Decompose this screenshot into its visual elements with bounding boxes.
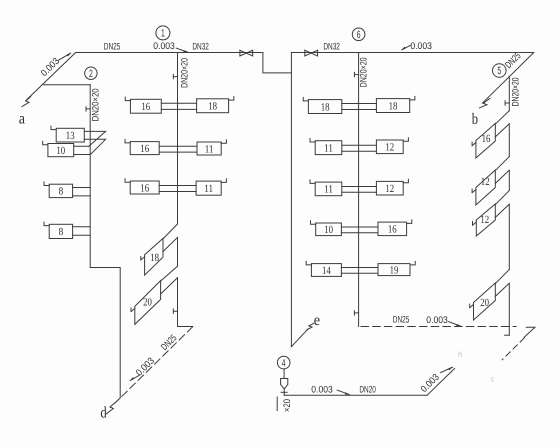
wire connectors radiator 8 upper	[73, 188, 91, 196]
radiator 20 axonometric b-column #4	[474, 283, 496, 320]
hook g2-row5 left box	[306, 261, 311, 265]
hook g2-row2 left box	[310, 139, 315, 143]
wire supply diagonal from node a	[26, 53, 76, 101]
radiator box 11 row2 right	[197, 142, 221, 155]
wire g2-row1 connectors	[342, 104, 377, 110]
svg-text:20: 20	[143, 297, 152, 309]
tick on b radiator #3	[473, 222, 477, 226]
slope arrow on a-diagonal	[58, 53, 70, 60]
hook row3 right box	[221, 179, 226, 183]
wire jog to b radiator 16 #1	[495, 111, 509, 125]
wire branch to left riser	[44, 84, 91, 86]
svg-text:18: 18	[389, 100, 398, 112]
svg-text:12: 12	[385, 142, 394, 154]
svg-text:12: 12	[385, 183, 394, 195]
tick on radiator 18 axon	[141, 256, 145, 260]
b riser top segment	[508, 77, 510, 111]
tick on b radiator #2	[472, 189, 476, 193]
pipe-break squiggle at e	[307, 323, 314, 330]
bottom DN20 horizontal pipe	[284, 394, 427, 396]
dashed return main DN25	[361, 326, 516, 328]
svg-text:DN25: DN25	[393, 315, 410, 326]
valve on main line right	[305, 50, 318, 56]
wire main horizontal DN25 segment	[76, 52, 263, 54]
wire connectors radiator 8 lower	[73, 227, 91, 235]
slope arrow on bottom diagonal	[441, 367, 453, 372]
hook g2-row3 right box	[403, 179, 408, 183]
group-1 riser bottom segment	[177, 278, 179, 327]
radiator box 12 g2-row2 right	[376, 140, 403, 154]
svg-text:12: 12	[481, 176, 490, 188]
svg-text:16: 16	[140, 143, 149, 155]
wire main line dip (pipe crossing)	[263, 53, 292, 73]
wire g2-row5 connectors	[341, 268, 378, 274]
air collector symbol	[281, 369, 288, 395]
node 6 bubble	[352, 28, 365, 41]
svg-text:13: 13	[66, 130, 75, 142]
svg-text:16: 16	[141, 101, 150, 113]
radiator box 13	[56, 128, 84, 142]
fixing tick on left riser	[86, 107, 90, 111]
svg-text:11: 11	[204, 183, 213, 195]
radiator box 16 row1 left	[130, 99, 161, 113]
wire main horizontal right section	[291, 52, 533, 54]
svg-text:e: e	[314, 312, 320, 329]
wire jog pipes from radiator 13	[84, 131, 105, 154]
dashed return pipe to d	[120, 327, 193, 398]
tick on radiator 20 axon	[131, 308, 135, 312]
svg-text:11: 11	[205, 143, 214, 155]
radiator box 16 row2 left	[130, 142, 159, 155]
svg-text:16: 16	[140, 182, 149, 194]
svg-text:0.003: 0.003	[410, 41, 432, 52]
svg-text:4: 4	[282, 357, 286, 369]
wire group-1 bottom elbow	[178, 326, 193, 328]
e-branch vertical drop	[290, 53, 292, 347]
svg-text:DN20×20: DN20×20	[179, 58, 190, 88]
radiator box 19 g2-row5 right	[378, 264, 410, 277]
svg-text:a: a	[19, 111, 25, 128]
wire g2-row2 connectors	[342, 145, 377, 151]
hook on radiator 8 lower	[44, 222, 49, 226]
wire diagonal to b riser	[482, 53, 533, 104]
hook on radiator 13	[51, 126, 56, 130]
wire return jog radiator 20 axon	[161, 278, 178, 294]
radiator box 18 g2-row1 right	[376, 99, 409, 113]
svg-text:8: 8	[59, 226, 64, 238]
radiator box 11 g2-row2 left	[315, 141, 342, 155]
faint continuation dashes	[502, 338, 524, 360]
b riser segment #2	[508, 170, 510, 190]
wire bottom diagonal rise	[427, 369, 455, 396]
svg-text:0.003: 0.003	[426, 315, 448, 326]
svg-text:10: 10	[324, 224, 333, 236]
svg-text:19: 19	[390, 264, 399, 276]
hook g2-row3 left box	[310, 180, 315, 184]
node 5 bubble	[493, 64, 507, 78]
svg-text:0.003: 0.003	[311, 385, 333, 396]
wire e diagonal	[291, 329, 308, 347]
pipe-break squiggle at d	[106, 398, 120, 414]
fixing tick on b riser	[505, 101, 509, 105]
b riser segment #1	[508, 124, 510, 157]
slope arrow near node 1	[176, 48, 187, 52]
radiator box 16 g2-row4 right	[378, 222, 407, 236]
wire jog to radiator 18 axon	[163, 224, 178, 239]
svg-text:DN25: DN25	[104, 41, 121, 52]
slope arrow on dashed return	[449, 322, 461, 327]
group-1 riser DN20x20	[177, 53, 179, 225]
svg-text:DN20×20: DN20×20	[358, 57, 369, 87]
node 1 bubble	[156, 26, 170, 40]
svg-text:5: 5	[497, 65, 501, 77]
svg-text:14: 14	[322, 265, 331, 277]
wire jog to b radiator 20 #4	[495, 270, 509, 284]
radiator box 10 g2-row4 left	[316, 223, 342, 236]
hook g2-row1 right box	[410, 96, 415, 100]
hook g2-row4 left box	[311, 221, 316, 225]
fixing tick on group-2 riser	[354, 72, 358, 76]
tick on air collector stem	[281, 391, 287, 393]
svg-text:1: 1	[161, 28, 165, 40]
group-2 riser DN20x20	[358, 53, 360, 327]
svg-text:18: 18	[321, 101, 330, 113]
hook g2-row2 right box	[403, 138, 408, 142]
svg-text:20: 20	[480, 297, 489, 309]
radiator box 11 g2-row3 left	[315, 182, 342, 196]
wire jog to radiator 20 axon	[161, 266, 178, 281]
svg-text:16: 16	[388, 224, 397, 236]
node 2 bubble	[85, 67, 97, 80]
svg-text:18: 18	[150, 252, 159, 264]
hook g2-row5 right box	[410, 261, 415, 265]
hook row1 right box	[229, 97, 234, 101]
wire g2-row3 connectors	[342, 187, 377, 193]
node 4 bubble	[277, 356, 290, 369]
tick on b radiator #4	[470, 304, 474, 308]
svg-text:c: c	[491, 375, 495, 384]
hook row2 left box	[125, 139, 130, 143]
hook on radiator 10	[43, 141, 48, 145]
fixing tick on group-1 riser	[173, 74, 177, 78]
wire return jog b radiator #4	[495, 283, 509, 296]
svg-text:18: 18	[208, 101, 217, 113]
left riser vertical	[89, 85, 91, 268]
pipe-break squiggle at a	[22, 97, 31, 107]
slope arrow on bottom pipe	[337, 390, 349, 394]
radiator box 18 row1 right	[197, 99, 229, 113]
fixing tick on group-1 riser bottom	[173, 309, 177, 313]
pipe-break squiggle at b diagonal	[480, 98, 490, 108]
radiator box 14 g2-row5 left	[311, 264, 341, 277]
radiator 20 axonometric	[135, 281, 161, 325]
svg-text:DN32: DN32	[192, 41, 209, 52]
wire row2 connectors	[159, 146, 197, 152]
radiator 12 axonometric b-column #3	[476, 204, 495, 236]
wire return jog b radiator #3	[495, 204, 509, 217]
radiator 16 axonometric b-column #1	[476, 124, 495, 159]
radiator box 12 g2-row3 right	[376, 181, 403, 195]
radiator box 8 upper	[49, 184, 72, 198]
pipe-break mark at dashed return end	[524, 327, 535, 337]
valve on main line left	[240, 50, 253, 56]
svg-text:2: 2	[89, 68, 93, 80]
radiator 12 axonometric b-column #2	[476, 170, 495, 205]
svg-text:8: 8	[59, 186, 64, 198]
svg-text:b: b	[472, 111, 478, 128]
wire jog to b radiator 12 #2	[495, 157, 509, 171]
svg-text:16: 16	[482, 133, 491, 145]
svg-text:DN32: DN32	[323, 41, 340, 52]
wire g2-row4 connectors	[341, 227, 378, 233]
svg-text:×20: ×20	[282, 399, 293, 412]
svg-text:DN20: DN20	[359, 385, 376, 396]
wire jog to b radiator 12 #3	[495, 191, 509, 205]
wire row3 connectors	[159, 186, 196, 192]
radiator box 16 row3 left	[130, 181, 159, 194]
wire return jog radiator 18 axon	[163, 237, 178, 251]
wire row1 connectors	[161, 103, 196, 109]
slope arrow right section	[402, 45, 410, 49]
hook row3 left box	[125, 179, 130, 183]
hook on radiator 8 upper	[44, 182, 49, 186]
group-1 riser segment below radiator 18	[177, 237, 179, 266]
radiator box 18 g2-row1 left	[308, 100, 341, 114]
tick on b radiator #1	[472, 142, 476, 146]
radiator box 10	[48, 144, 74, 157]
svg-text:11: 11	[324, 184, 333, 196]
slope arrow on d-return	[130, 375, 139, 380]
radiator 18 axonometric	[145, 238, 163, 275]
hook row2 right box	[221, 140, 226, 144]
b riser bottom segment	[508, 283, 510, 335]
svg-text:DN20×20: DN20×20	[90, 88, 101, 121]
svg-text:6: 6	[357, 29, 361, 41]
hook row1 left box	[125, 97, 130, 101]
svg-text:0.003: 0.003	[153, 41, 175, 52]
hook at b riser bottom	[505, 334, 510, 336]
leader line near x20 label	[276, 397, 278, 411]
wire return jog b radiator #2	[495, 170, 509, 183]
svg-text:12: 12	[480, 214, 489, 226]
svg-text:d: d	[100, 404, 106, 421]
wire return jog b radiator #1	[495, 124, 509, 137]
fixing tick on group-2 riser bottom	[354, 311, 358, 315]
svg-text:DN20×20: DN20×20	[511, 77, 522, 106]
svg-text:10: 10	[56, 145, 65, 157]
b riser segment #3	[508, 204, 510, 269]
wire connectors radiator 10	[74, 146, 91, 154]
svg-text:11: 11	[324, 142, 333, 154]
wire left riser elbow to drop	[90, 268, 120, 399]
hook g2-row1 left box	[303, 97, 308, 101]
hook g2-row4 right box	[407, 220, 412, 224]
radiator box 11 row3 right	[196, 181, 221, 195]
svg-text:h: h	[458, 350, 462, 359]
radiator box 8 lower	[49, 224, 72, 238]
